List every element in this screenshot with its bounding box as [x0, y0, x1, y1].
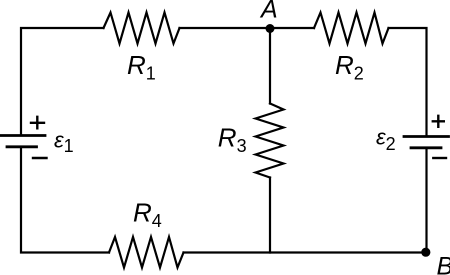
battery E1 plus sign	[31, 117, 44, 129]
battery E2 minus sign	[433, 157, 446, 159]
wire bottom-left segment	[21, 149, 109, 253]
battery E2	[404, 137, 449, 148]
wire top-left segment	[21, 28, 104, 135]
svg-text:R1: R1	[127, 50, 156, 84]
wire top-right segment	[389, 28, 427, 135]
resistor R3 vertical stub top	[269, 29, 271, 104]
svg-text:R4: R4	[133, 198, 162, 232]
svg-text:ε2: ε2	[376, 125, 396, 155]
battery E2 plus sign	[433, 116, 444, 127]
node A	[266, 24, 275, 33]
wire top-middle segment	[180, 27, 315, 29]
resistor R3 vertical stub bottom	[269, 178, 271, 253]
battery E1 minus sign	[33, 157, 47, 159]
resistor R3	[256, 104, 284, 178]
resistor R2	[314, 13, 389, 44]
svg-text:R2: R2	[335, 50, 364, 84]
node B	[421, 248, 430, 257]
battery E1	[0, 136, 45, 147]
resistor R4	[109, 237, 184, 268]
svg-text:ε1: ε1	[54, 128, 74, 157]
svg-text:R3: R3	[218, 123, 247, 157]
svg-text:A: A	[259, 0, 278, 24]
resistor R1	[104, 13, 180, 44]
svg-text:B: B	[437, 253, 450, 275]
wire right segment	[425, 149, 427, 252]
wire bottom-right segment	[184, 251, 427, 253]
